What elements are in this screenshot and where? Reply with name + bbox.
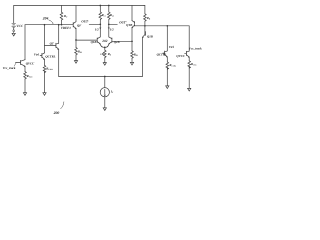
wire I/2 right collector	[108, 24, 110, 37]
svg-text:Q2B: Q2B	[114, 40, 120, 44]
transistor Q2B (diff pair right)	[105, 37, 112, 48]
wire right QVCC2 drop	[188, 26, 190, 51]
junction node RB	[144, 25, 146, 27]
transistor QCTRL right	[165, 51, 168, 62]
wire left branch QVCC drop	[24, 25, 26, 60]
svg-text:RE1: RE1	[78, 50, 82, 55]
transistor QTB	[132, 6, 135, 42]
ground (RE1)	[74, 61, 77, 64]
svg-text:QF: QF	[77, 24, 82, 28]
transistor QF	[73, 6, 76, 41]
wire bottom tail rail	[59, 76, 143, 78]
junction rail RL1	[99, 5, 101, 7]
svg-text:VREF1: VREF1	[61, 26, 72, 30]
svg-text:RL1: RL1	[102, 13, 106, 18]
ground (RE2)	[130, 62, 133, 65]
svg-text:Vcc_track: Vcc_track	[3, 66, 16, 70]
resistor RVCC left	[24, 72, 27, 93]
svg-text:QT: QT	[50, 41, 54, 45]
svg-text:Vtrl: Vtrl	[169, 45, 174, 49]
transistor Q1B (diff pair left)	[97, 37, 105, 48]
ground (RVCC right)	[188, 88, 191, 91]
junction	[44, 24, 46, 26]
resistor RE2	[131, 41, 134, 62]
resistor RCTRL right	[166, 62, 169, 86]
wire bias net right	[135, 25, 190, 27]
resistor RCTRL left	[43, 65, 46, 92]
wire VCC drop	[13, 6, 15, 24]
junction rail RL2	[108, 5, 110, 7]
wire left QCTRL drop	[44, 25, 46, 53]
wire QCTRL base stub	[40, 55, 42, 57]
svg-text:RCTRL: RCTRL	[46, 67, 54, 72]
svg-text:I/2: I/2	[94, 27, 99, 31]
svg-text:RE: RE	[108, 52, 112, 57]
svg-text:RL2: RL2	[110, 13, 114, 18]
resistor RE1	[75, 40, 78, 60]
ground (RCTRL right)	[166, 86, 169, 89]
svg-text:RB: RB	[147, 16, 151, 21]
junction QT collector	[58, 24, 60, 26]
resistor RB (top right)	[144, 6, 147, 26]
svg-text:RCTRL: RCTRL	[169, 63, 177, 68]
svg-text:Q1B: Q1B	[91, 40, 97, 44]
transistor Q1B right	[142, 26, 145, 77]
svg-text:202: 202	[101, 39, 107, 43]
svg-text:204: 204	[42, 17, 49, 21]
resistor RL2	[108, 6, 111, 25]
ground (VCC battery)	[12, 33, 15, 36]
transistor QT	[56, 25, 59, 77]
junction	[61, 24, 63, 26]
svg-text:RVCC: RVCC	[27, 74, 34, 79]
svg-text:OUT-: OUT-	[81, 20, 89, 24]
svg-text:vB: vB	[100, 52, 103, 56]
wire QF emitter to Q1B base	[76, 39, 97, 41]
svg-text:QVCC: QVCC	[176, 54, 185, 58]
transistor QVCC right	[186, 51, 189, 61]
wire QCTRL2 base stub	[163, 52, 165, 54]
wire right QCTRL2 drop	[166, 26, 168, 51]
wire QT base	[45, 44, 56, 46]
junction tail rail	[104, 76, 106, 78]
wire QVCC2 base stub	[185, 52, 187, 54]
svg-text:IT: IT	[110, 89, 114, 94]
transistor QCTRL left	[42, 53, 45, 65]
svg-text:QCTRL: QCTRL	[45, 54, 55, 58]
svg-text:QTB: QTB	[126, 23, 132, 27]
node tail junction	[104, 47, 106, 49]
wire Q2B base	[112, 40, 132, 42]
wire rail end to RB	[143, 5, 146, 7]
ground (RCTRL left)	[43, 93, 46, 96]
ground (RVCC left)	[23, 93, 26, 96]
junction node QCTRL2	[166, 25, 168, 27]
leader 200	[61, 102, 64, 109]
wire top VCC rail	[14, 5, 144, 7]
ground (tail RE)	[103, 63, 106, 66]
svg-text:QVCC: QVCC	[26, 61, 35, 65]
junction OUT- node	[99, 23, 101, 25]
svg-text:VCC: VCC	[16, 24, 23, 28]
svg-text:Vtrl: Vtrl	[34, 52, 39, 56]
svg-text:RVCC: RVCC	[191, 62, 197, 67]
junction QF emitter node	[75, 39, 77, 41]
svg-text:Vcc_track: Vcc_track	[189, 46, 202, 50]
svg-text:I/2: I/2	[109, 27, 114, 31]
battery VCC	[12, 23, 16, 33]
resistor RE (tail)	[104, 47, 107, 62]
svg-text:RE2: RE2	[134, 52, 138, 57]
resistor RVCC right	[188, 61, 191, 88]
svg-text:RF: RF	[64, 14, 68, 19]
svg-text:QCTRL: QCTRL	[157, 52, 167, 56]
leader Vcc track left	[14, 63, 16, 66]
leader 204	[49, 20, 54, 23]
junction OUT+ node	[108, 23, 110, 25]
wire OUT-	[89, 23, 100, 25]
svg-text:200: 200	[53, 111, 60, 115]
resistor RL1	[99, 6, 102, 25]
wire QVCC base	[16, 61, 21, 63]
junction QTB emitter / Q2B base	[131, 40, 133, 42]
svg-text:Q1B: Q1B	[147, 35, 153, 39]
ground (IT)	[103, 108, 106, 111]
resistor RF	[60, 6, 63, 25]
node VREF1 wire	[25, 24, 73, 26]
current source IT	[100, 77, 109, 108]
wire I/2 left collector	[99, 24, 101, 37]
wire OUT+	[109, 23, 118, 25]
transistor QVCC left	[21, 60, 25, 72]
